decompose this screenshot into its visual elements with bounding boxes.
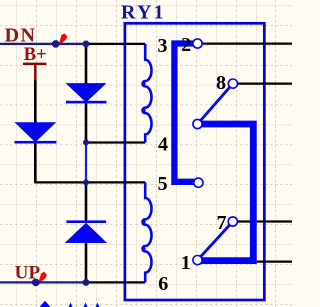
svg-text:1: 1 xyxy=(181,252,191,274)
svg-text:RY1: RY1 xyxy=(121,1,166,23)
svg-text:8: 8 xyxy=(216,72,226,94)
svg-text:6: 6 xyxy=(158,273,168,295)
svg-text:2: 2 xyxy=(181,34,191,56)
svg-text:B+: B+ xyxy=(24,45,47,65)
svg-text:DN: DN xyxy=(5,24,37,46)
svg-text:4: 4 xyxy=(158,134,168,156)
svg-text:5: 5 xyxy=(158,173,168,195)
svg-text:7: 7 xyxy=(217,212,227,234)
svg-text:3: 3 xyxy=(158,35,168,57)
svg-text:UP: UP xyxy=(15,263,41,284)
